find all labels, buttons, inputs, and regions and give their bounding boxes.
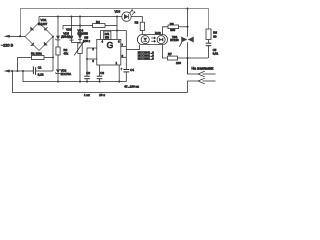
node common R5 <box>79 81 81 83</box>
wire IC gnd pin <box>118 65 120 82</box>
node pin4 supply <box>116 29 118 31</box>
resistor R3 <box>140 22 144 34</box>
node rail at IC supply <box>116 15 118 17</box>
svg-text:R1 220к: R1 220к <box>31 51 42 55</box>
svg-text:2: 2 <box>92 47 94 51</box>
node pin6 junction <box>86 58 88 60</box>
svg-text:G: G <box>107 40 114 50</box>
zener VD5 <box>56 17 60 48</box>
svg-text:8: 8 <box>118 40 120 44</box>
node common C3 <box>98 81 100 83</box>
triac inside opto <box>159 37 161 41</box>
coupling arrows <box>151 37 155 42</box>
diode VD1.2 top-right <box>44 27 47 30</box>
svg-text:0,22: 0,22 <box>38 73 44 77</box>
zener VD2 <box>56 69 60 81</box>
triac VS1 <box>179 9 193 75</box>
svg-text:1: 1 <box>116 61 118 65</box>
wire upper AC terminal lead <box>7 35 25 37</box>
node lower AC junction 1 <box>11 70 13 72</box>
svg-text:R7: R7 <box>168 52 172 56</box>
svg-text:На паяльник: На паяльник <box>192 66 214 70</box>
node common VD2 <box>57 81 59 83</box>
svg-text:100: 100 <box>176 61 181 65</box>
svg-text:555: 555 <box>105 37 110 40</box>
svg-text:47...100 мк: 47...100 мк <box>124 85 139 89</box>
wire lower AC terminal lead <box>7 70 23 72</box>
potentiometer R5 <box>74 41 84 82</box>
capacitor C1 <box>23 66 53 75</box>
wire main dark rail <box>39 16 122 18</box>
IC timer DA1 <box>97 31 121 65</box>
connector upper plug <box>198 71 216 77</box>
node triac out <box>186 57 188 59</box>
node bridge right vertex <box>52 36 54 38</box>
node rail at VD4 <box>79 15 81 17</box>
svg-text:ВТ136: ВТ136 <box>170 38 179 42</box>
svg-text:C2: C2 <box>86 71 90 75</box>
LED inside opto <box>143 38 147 41</box>
capacitor C4 <box>120 68 129 82</box>
diode VD4 <box>78 17 82 44</box>
diode VD3 <box>70 17 74 43</box>
capacitor C3 <box>97 65 103 82</box>
svg-text:Д814Д: Д814Д <box>61 35 70 39</box>
svg-text:10 н: 10 н <box>99 93 105 97</box>
svg-text:R6: R6 <box>170 22 174 26</box>
svg-text:VD6: VD6 <box>115 9 121 13</box>
svg-text:100 к: 100 к <box>83 39 91 43</box>
svg-text:~220 В: ~220 В <box>1 43 14 47</box>
resistor R1 <box>18 55 54 71</box>
resistor R6 <box>163 25 188 35</box>
node R1 right <box>52 57 54 59</box>
svg-text:C3: C3 <box>100 71 104 75</box>
diode VD1.4 bottom-right <box>44 42 47 45</box>
resistor R8 <box>206 29 211 43</box>
node triac top gate-res <box>186 26 188 28</box>
wire common rail <box>23 71 126 82</box>
node mains upper junction <box>19 35 21 37</box>
resistor R7 <box>163 45 209 60</box>
node R4 tap <box>79 24 81 26</box>
svg-text:DA2: DA2 <box>155 31 161 35</box>
wire bridge right to RC node <box>52 37 54 72</box>
capacitor C5 <box>206 43 212 58</box>
svg-text:47к: 47к <box>64 52 69 56</box>
wire opto LED cathode <box>139 45 141 50</box>
svg-text:C4: C4 <box>130 68 134 72</box>
wire IC supply line <box>116 17 118 40</box>
node triac top at AC rail <box>187 8 189 10</box>
node common C2 <box>86 81 88 83</box>
svg-text:КЦ407: КЦ407 <box>38 22 48 26</box>
svg-text:MOC3081 ..3: MOC3081 ..3 <box>138 57 154 61</box>
resistor R4 <box>63 24 117 30</box>
svg-text:R3: R3 <box>135 20 139 24</box>
diode VD1.1 top-left <box>31 27 34 30</box>
wire VD3 to VD4 join <box>72 42 81 44</box>
svg-text:КС170А: КС170А <box>61 72 72 76</box>
connector lower plug <box>188 78 216 92</box>
optocoupler DA2 <box>137 35 167 45</box>
wire top faint AC rail <box>21 9 209 37</box>
resistor R2 <box>56 47 60 69</box>
svg-text:39: 39 <box>213 34 217 38</box>
svg-text:1 мк: 1 мк <box>84 93 90 97</box>
wire IC left pins <box>87 48 97 76</box>
node rail at VD5 <box>57 15 59 17</box>
svg-text:0,01: 0,01 <box>213 52 219 56</box>
wire bridge top to rail <box>38 17 40 23</box>
node lower AC junction 3 <box>22 70 24 72</box>
svg-text:C1: C1 <box>38 66 42 70</box>
svg-text:4: 4 <box>102 40 104 44</box>
node lower AC junction 2 <box>17 70 19 72</box>
svg-text:VD3: VD3 <box>66 28 72 32</box>
terminal arrow upper <box>4 35 10 38</box>
svg-text:6: 6 <box>92 59 94 63</box>
svg-text:R4: R4 <box>96 20 100 24</box>
capacitor C2 <box>84 76 90 81</box>
svg-text:DA1: DA1 <box>105 33 110 36</box>
wire to upper plug <box>188 58 199 74</box>
LED VD6 <box>122 10 135 21</box>
wire IC out to opto <box>125 31 127 70</box>
svg-text:300: 300 <box>170 28 175 32</box>
terminal arrow lower <box>4 70 10 73</box>
node common end <box>118 81 120 83</box>
diode VD1.3 bottom-left <box>31 43 34 46</box>
node rail at VD3 <box>71 16 73 18</box>
bridge rectifier VD1 <box>25 23 53 51</box>
wire mains bottom rail <box>13 71 188 93</box>
